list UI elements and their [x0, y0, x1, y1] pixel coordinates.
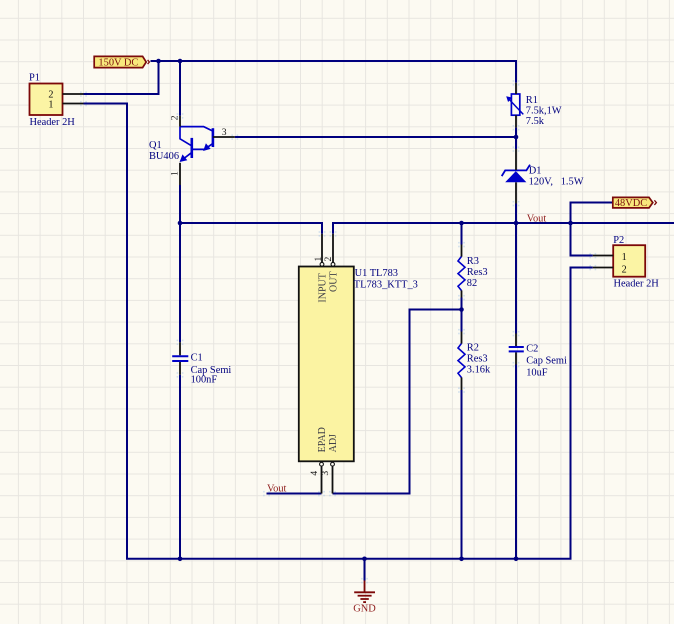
svg-text:100nF: 100nF	[191, 375, 218, 386]
svg-text:C2: C2	[526, 343, 538, 354]
svg-text:Header 2H: Header 2H	[30, 117, 76, 128]
connector P2 body	[613, 245, 645, 277]
junction at Vout / D1 C2 column	[514, 221, 519, 226]
svg-text:7.5k,1W: 7.5k,1W	[526, 106, 562, 117]
svg-text:EPAD: EPAD	[317, 427, 328, 452]
wire: R3 bottom to divider junction	[461, 298, 463, 310]
svg-text:INPUT: INPUT	[317, 273, 328, 302]
svg-text:Header 2H: Header 2H	[614, 279, 660, 290]
junction at Vout / P2 riser	[568, 221, 573, 226]
port 150V DC	[94, 56, 149, 68]
resistor R2	[458, 343, 465, 377]
P1 pin 2	[63, 93, 84, 95]
svg-text:GND: GND	[353, 604, 376, 615]
ground symbol	[354, 581, 375, 603]
R1 pin bottom	[515, 115, 517, 127]
wire: R1 junction down to D1	[515, 137, 517, 149]
pin hotspot marks	[80, 80, 596, 583]
svg-text:OUT: OUT	[328, 271, 339, 292]
capacitor C2	[509, 347, 524, 351]
svg-text:1: 1	[48, 99, 53, 110]
wire: Q1 emitter column down through C1 to bottom bus	[179, 185, 181, 559]
svg-text:3: 3	[222, 127, 227, 138]
svg-text:1: 1	[313, 257, 324, 262]
D1 pin top	[515, 149, 517, 170]
svg-text:Res3: Res3	[467, 267, 488, 278]
svg-text:R2: R2	[467, 342, 479, 353]
junction at divider mid node	[459, 307, 464, 312]
wire: bus drop to Q1 collector	[179, 61, 181, 116]
junction at bus / C2	[514, 557, 519, 562]
wire: R2 top stub	[461, 310, 463, 332]
svg-text:U1 TL783: U1 TL783	[355, 268, 398, 279]
wire: Q1 base to R1 bottom junction	[235, 136, 516, 138]
P2 pin 2	[593, 267, 613, 269]
wire: D1 anode down to Vout line	[515, 204, 517, 224]
junction at bus/Q1 riser	[178, 59, 183, 64]
svg-text:2: 2	[170, 115, 181, 120]
svg-text:Res3: Res3	[467, 353, 488, 364]
svg-text:Vout: Vout	[527, 214, 547, 225]
R1 pin top	[515, 83, 517, 94]
svg-text:P2: P2	[613, 235, 624, 246]
wire: top 150V bus from flag to R1 corner, down to R1	[151, 61, 517, 83]
svg-text:2: 2	[622, 264, 627, 275]
junction at bus / GND	[362, 557, 367, 562]
wire: riser from bus to P1 pin 2	[84, 61, 159, 94]
svg-text:7.5k: 7.5k	[526, 116, 545, 127]
svg-text:Cap Semi: Cap Semi	[526, 355, 567, 366]
svg-text:3.16k: 3.16k	[467, 364, 491, 375]
resistor R1 (adjustable)	[506, 94, 523, 115]
C2 pin top	[515, 334, 517, 347]
junction at bus / R2	[459, 557, 464, 562]
regulator U1 body	[299, 267, 354, 462]
svg-text:120V, 1.5W: 120V, 1.5W	[529, 176, 584, 187]
svg-text:BU406: BU406	[149, 151, 179, 162]
P1 pin 1	[63, 103, 84, 105]
D1 pin bottom	[515, 182, 517, 203]
U1 pin 4 EPAD	[320, 461, 324, 493]
svg-text:P1: P1	[29, 73, 40, 84]
C1 pin top	[179, 342, 181, 355]
svg-text:R3: R3	[467, 256, 479, 267]
svg-text:150V DC: 150V DC	[98, 57, 138, 68]
wire: left Vout segment from Q1 column to U1 INPUT pin	[180, 223, 322, 234]
svg-text:D1: D1	[529, 165, 542, 176]
junction at R1 bottom / Q1 base	[514, 135, 519, 140]
svg-text:1: 1	[622, 252, 627, 263]
capacitor C1	[172, 356, 188, 361]
svg-text:TL783_KTT_3: TL783_KTT_3	[354, 279, 418, 290]
junction at Vout / R3	[459, 221, 464, 226]
wire: R2 bottom to bus	[461, 390, 463, 559]
junction at bus/flag	[156, 59, 161, 64]
svg-text:C1: C1	[191, 352, 203, 363]
port 48VDC	[613, 197, 657, 209]
R3 pin top	[461, 245, 463, 257]
Q1 pin 3 (base)	[213, 136, 235, 138]
svg-text:3: 3	[320, 471, 331, 476]
Q1 pin 2 (collector)	[179, 116, 181, 127]
svg-text:Vout: Vout	[267, 484, 287, 495]
wire: Vout labelled stub at U1 EPAD pin	[267, 493, 322, 495]
R3 pin bottom	[461, 290, 463, 297]
U1 pin 3 ADJ	[331, 461, 335, 493]
wire: P2 pin 1 branch	[571, 223, 593, 256]
wire: P1 pin 1 net down left side to bottom bus across to P2 branch	[84, 104, 593, 559]
junction at bus / C1 column	[178, 557, 183, 562]
svg-text:R1: R1	[526, 95, 538, 106]
wire: divider junction to ADJ pin riser	[333, 310, 462, 494]
P2 pin 1	[593, 255, 613, 257]
wire: R3 top stub from Vout line	[461, 223, 463, 245]
wire: 48VDC flag stub	[571, 203, 613, 224]
svg-text:10uF: 10uF	[526, 367, 548, 378]
C2 pin bottom	[515, 352, 517, 364]
wire: right Vout line from U1 OUT pin to right edge	[333, 223, 674, 234]
R1 pin bottom wire	[515, 128, 517, 137]
wire: C2 column from Vout line to bus	[515, 223, 517, 559]
wire: GND stub from bottom bus	[364, 559, 366, 581]
diode D1 (zener)	[502, 165, 530, 183]
svg-text:1: 1	[170, 171, 181, 176]
U1 pin 1 INPUT	[320, 234, 324, 267]
transistor Q1	[180, 127, 213, 162]
resistor R3	[458, 256, 465, 290]
svg-text:48VDC: 48VDC	[615, 198, 647, 209]
R2 pin top	[461, 332, 463, 344]
svg-text:4: 4	[309, 471, 320, 476]
connector P1 body	[30, 84, 63, 116]
svg-text:Q1: Q1	[149, 140, 162, 151]
svg-text:82: 82	[467, 278, 477, 289]
C1 pin bottom	[179, 362, 181, 375]
Q1 pin 1 (emitter)	[179, 163, 181, 185]
svg-text:ADJ: ADJ	[328, 434, 339, 452]
R2 pin bottom	[461, 377, 463, 390]
junction at Q1 column / Vout left	[178, 221, 183, 226]
svg-text:2: 2	[323, 257, 334, 262]
U1 pin 2 OUT	[331, 234, 335, 267]
